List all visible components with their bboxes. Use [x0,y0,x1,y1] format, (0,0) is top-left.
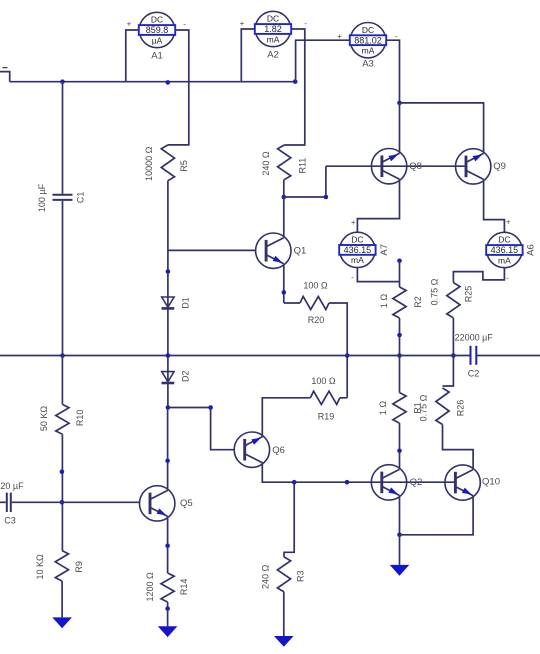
label R9 name [74,561,84,573]
node Q8 base corner [324,195,329,200]
svg-text:859.8: 859.8 [146,25,169,35]
wire Q1 emitter [283,264,285,303]
label C3 value [0,481,24,491]
svg-text:Q5: Q5 [180,498,193,509]
label R5 name [179,160,189,172]
svg-text:220 µF: 220 µF [0,481,24,491]
svg-text:R10: R10 [75,410,85,427]
wire rail to R10 [61,356,63,405]
node D2 bottom junction [166,405,171,410]
svg-text:mA: mA [267,34,280,44]
label A2 minus [304,19,307,28]
transistor Q2 [371,465,406,500]
ammeter A7 [339,232,390,267]
label C1 name [76,192,86,204]
resistor R11 [278,145,291,180]
wire R10 to C3 junction [61,434,63,550]
wire R2 top lead [399,261,401,287]
label R2 value [379,294,389,309]
wire Q8 collector down to A7 [357,179,399,232]
svg-text:Q9: Q9 [493,161,506,172]
wire to Q8 emitter [399,103,401,153]
svg-text:D2: D2 [180,371,190,383]
node R2 top [397,259,402,264]
svg-text:R3: R3 [295,570,305,582]
resistor R19 [310,391,340,404]
transistor Q9 [456,149,491,184]
svg-text:DC: DC [351,235,363,245]
svg-text:10 KΩ: 10 KΩ [35,554,45,580]
diode D2 [162,372,175,383]
resistor R14 [161,573,174,602]
minus label of off-screen meter [3,67,8,69]
wire C3 left lead [0,501,6,503]
wire Q10 emitter [400,496,474,535]
wire Q2 emitter [399,496,401,535]
label A2 plus [240,19,245,28]
svg-text:+: + [337,32,342,41]
svg-text:-: - [395,32,398,41]
label C1 value [37,183,47,212]
wire A1 minus lead down to R5 [168,30,189,145]
svg-text:+: + [351,218,356,227]
svg-text:436.15: 436.15 [344,245,372,255]
label R11 value [261,151,271,176]
resistor R10 [56,404,69,434]
label R3 name [295,570,305,582]
svg-text:D1: D1 [180,297,190,309]
svg-text:Q10: Q10 [482,477,500,488]
label A3 plus [337,32,342,41]
wire R2 bottom to rail [399,318,401,356]
wire D1 to D2 [167,310,169,372]
transistor Q8 [371,149,406,184]
svg-text:R9: R9 [74,561,84,573]
wire R26 bottom to Q10 collector [443,425,474,470]
svg-text:A7: A7 [379,244,390,256]
label A6 minus [506,273,509,282]
label A7 plus [351,218,356,227]
svg-text:436.15: 436.15 [491,245,519,255]
wire Q6 collector to base rail [262,462,455,482]
capacitor C1 [53,195,73,200]
wire rail to R26 [443,356,454,387]
wire output rail right [476,355,540,357]
svg-text:R26: R26 [455,400,465,417]
svg-text:R25: R25 [463,286,473,303]
wire R19 to output column [340,397,347,399]
label Q1 [294,246,307,257]
wire Q6 emitter to R19 [262,398,310,437]
label R25 value [430,278,440,305]
node output rail R20 junction [345,353,350,358]
label Q2 [410,477,423,488]
label R14 name [179,579,189,596]
label R3 value [261,565,271,590]
svg-text:240 Ω: 240 Ω [261,565,271,590]
svg-text:Q2: Q2 [410,477,423,488]
label Q10 [482,477,500,488]
transistor Q6 [234,432,269,467]
svg-text:µA: µA [152,35,163,45]
svg-text:DC: DC [151,15,163,25]
wire C1 bottom lead [62,201,64,356]
svg-text:R11: R11 [297,158,307,174]
ground below R9 [52,581,72,628]
node Q1 emitter junction [282,290,287,295]
wire output rail left [0,355,471,357]
svg-text:50 KΩ: 50 KΩ [39,406,49,432]
svg-text:100 µF: 100 µF [37,183,47,212]
wire to Q9 emitter [400,103,484,153]
wire top-left supply stub [0,72,10,82]
label C2 value [455,332,494,342]
svg-text:DC: DC [362,25,374,35]
wire A1 plus lead [126,30,140,82]
svg-text:1 Ω: 1 Ω [378,401,388,416]
diode D1 [162,297,175,308]
label R10 name [75,410,85,427]
wire A2 minus lead down to R11 [284,29,305,145]
transistor Q5 [140,486,175,521]
wire Q1 emitter to R20 [284,302,300,304]
wire A3 minus lead [386,40,399,103]
ammeter A3 [350,23,386,70]
svg-text:C3: C3 [4,516,16,526]
ammeter A1 [139,12,175,61]
resistor R25 [447,283,460,318]
label Q9 [493,161,506,172]
label R1 name [413,402,423,414]
node above C3 junction [60,469,65,474]
svg-text:0.75 Ω: 0.75 Ω [430,278,440,305]
svg-text:+: + [127,19,132,28]
resistor R26 [436,388,449,425]
wire node to Q8 base column [284,166,326,197]
svg-text:1200 Ω: 1200 Ω [145,572,155,602]
svg-text:R14: R14 [179,579,189,596]
label R1 value [378,401,388,416]
svg-text:DC: DC [267,14,279,24]
wire Q1 collector [283,197,285,238]
wire A3 plus lead [296,40,351,81]
label R19 value [311,376,336,386]
svg-text:A1: A1 [151,51,163,62]
wire C1 top lead [62,82,64,194]
transistor Q1 [256,233,291,268]
label R14 value [145,572,155,602]
resistor R3 [277,557,290,592]
svg-text:R20: R20 [308,315,325,325]
wire R25 bottom to rail [452,318,454,356]
wire A2 plus lead [241,29,255,82]
node R2 bottom [397,333,402,338]
wire rail to R1 [399,356,401,393]
node rail junction [166,80,171,85]
svg-text:-: - [304,19,307,28]
node base rail junction [345,480,350,485]
svg-text:240 Ω: 240 Ω [261,151,271,176]
transistor Q10 [445,465,480,500]
svg-text:22000 µF: 22000 µF [455,332,494,342]
capacitor C2 [471,346,477,365]
svg-text:mA: mA [351,255,364,265]
label A3 minus [395,32,398,41]
node above Q5 collector [165,458,170,463]
svg-text:1 Ω: 1 Ω [379,294,389,309]
resistor R20 [300,296,329,309]
wire Q5 emitter to R14 [167,516,169,573]
label C3 name [4,516,16,526]
node emitter ground junction [397,533,402,538]
svg-text:Q8: Q8 [409,161,422,172]
wire D2 junction down to Q5 collector [167,408,169,491]
label R26 value [419,394,429,421]
node rail-C1 junction [60,79,65,84]
svg-text:Q1: Q1 [294,246,307,257]
svg-text:100 Ω: 100 Ω [303,280,328,290]
label A6 plus [506,218,511,227]
label R2 name [413,296,423,308]
node Q5 emitter junction [165,543,170,548]
wire top rail y=82 [10,81,296,83]
node below R14 [165,606,170,611]
label R9 value [35,554,45,580]
ground below R14 [158,609,178,638]
svg-text:C2: C2 [468,368,480,378]
svg-text:A3: A3 [362,59,374,70]
svg-text:DC: DC [498,235,510,245]
svg-text:0.75 Ω: 0.75 Ω [419,394,429,421]
svg-text:mA: mA [498,255,511,265]
wire A6 minus to R25 [453,268,504,283]
wire A7 minus to R2 column [357,268,399,282]
svg-text:R5: R5 [179,160,189,172]
svg-text:-: - [351,273,354,282]
svg-text:mA: mA [362,46,375,56]
resistor R1 [393,393,406,424]
resistor R9 [55,551,68,582]
ammeter A6 [486,232,536,267]
wire Q8 Q9 base rail [326,165,466,167]
resistor R5 [161,145,174,181]
svg-text:A6: A6 [525,244,536,256]
svg-text:R2: R2 [413,296,423,308]
ground output stage [390,535,410,576]
label D2 [180,371,190,383]
node R1-Q2 junction [397,449,402,454]
svg-text:-: - [183,20,186,29]
node output rail R2 junction [397,353,402,358]
label R10 value [39,406,49,432]
label R25 name [463,286,473,303]
label R20 value [303,280,328,290]
wire R5 to Q1 base corner [167,181,169,251]
node above D1 [166,269,171,274]
svg-text:Q6: Q6 [272,445,285,456]
label R19 name [318,411,335,421]
node rail diode column junction [166,353,171,358]
wire R1 bottom [399,423,401,469]
label A1 plus [127,19,132,28]
wire corner down to D1 [167,250,169,297]
svg-text:C1: C1 [76,192,86,204]
wire R11 bottom [283,180,285,197]
wire base rail down to R3 [284,482,294,557]
svg-text:+: + [506,218,511,227]
node Q6 base corner [208,405,213,410]
label R5 value [144,146,154,181]
wire to Q6 base [168,408,235,450]
svg-text:-: - [506,273,509,282]
wire Q9 collector down to A6 [484,179,505,232]
resistor R2 [393,287,406,318]
svg-text:100 Ω: 100 Ω [311,376,336,386]
label D1 [180,297,190,309]
svg-text:10000 Ω: 10000 Ω [144,146,154,181]
label Q5 [180,498,193,509]
node rail right end junction [293,79,298,84]
svg-text:881.02: 881.02 [354,35,382,45]
wire R20 to output column [329,303,347,398]
node output rail R25 junction [451,353,456,358]
svg-text:A2: A2 [267,50,279,61]
label R11 name [297,158,307,174]
label R20 name [308,315,325,325]
wire D2 bottom [167,384,169,407]
node rail C1 column junction [60,353,65,358]
node A3 output junction [397,101,402,106]
label A7 minus [351,273,354,282]
label A1 minus [183,20,186,29]
svg-text:+: + [240,19,245,28]
label C2 name [468,368,480,378]
ammeter A2 [255,11,291,60]
node base rail R3 junction [292,480,297,485]
node C3 R9 Q5 junction [60,500,65,505]
label R26 name [455,400,465,417]
label Q6 [272,445,285,456]
label Q8 [409,161,422,172]
ground below R3 [274,592,294,647]
svg-text:1.82: 1.82 [264,24,282,34]
svg-text:R19: R19 [318,411,335,421]
capacitor C3 [7,493,11,512]
wire to Q1 base [168,249,256,251]
wire R14 bottom [167,602,169,609]
node R11-Q1 collector junction [282,195,287,200]
wire C3 to Q5 base [12,501,140,503]
